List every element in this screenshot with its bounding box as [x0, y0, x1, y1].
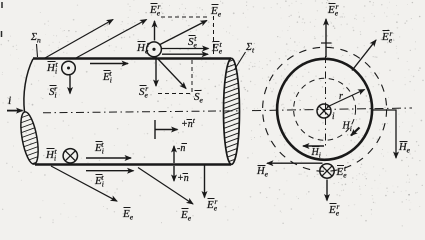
label +n^t	[181, 116, 196, 130]
label S_i^r	[49, 84, 57, 100]
label E_i^t top	[102, 69, 112, 85]
svg-text:Eer: Eer	[381, 29, 393, 45]
right end cross-section Sigma_t (hatched ellipse)	[214, 48, 252, 182]
axis of cylinder (dash-dot)	[43, 111, 239, 113]
H_e^t symbol: field out of page (circle-dot)	[147, 42, 162, 57]
H_i direction arrow (inner circle)	[351, 128, 360, 136]
sigma_n pointer	[37, 44, 38, 57]
label E_e resultant	[210, 5, 222, 19]
H_i^t symbol: field into page (circle-X)	[63, 149, 77, 163]
label S_e^r	[139, 84, 149, 100]
incident ray arrow 1	[45, 20, 113, 59]
svg-text:+n: +n	[177, 173, 189, 184]
left end cross-section (hatched ellipse)	[12, 103, 48, 191]
svg-text:Sir: Sir	[49, 84, 57, 100]
label H_e right side	[398, 142, 411, 155]
label E_e bottom left	[122, 208, 134, 222]
E_i^t arrow (above bottom surface)	[86, 157, 131, 159]
conductor cross-section circle	[277, 59, 372, 160]
E_e^t symbol: field into page at bottom (circle-X)	[320, 164, 334, 178]
E_e^r down arrow (bottom)	[204, 165, 206, 198]
H_e right-hand lead (L-shape, arrow down)	[373, 110, 397, 158]
cylinder left break arc	[24, 59, 33, 112]
current arrow i	[7, 110, 23, 112]
radius arrow r	[327, 90, 365, 108]
H_i arrow near bottom inside	[303, 145, 324, 147]
scan edge artifacts	[1, 2, 4, 37]
label +n	[177, 173, 189, 184]
svg-text:Eit: Eit	[94, 140, 104, 156]
outer dashed circle: H_e path	[263, 47, 387, 171]
wire: cylinder bottom surface	[35, 163, 231, 166]
S_e^r down arrow	[155, 57, 157, 87]
svg-text:Eet: Eet	[211, 40, 223, 56]
normal direction marker +n^t	[155, 120, 178, 139]
E_e^r upper-right diagonal arrow	[352, 40, 376, 71]
label E_e^t	[211, 40, 223, 56]
svg-text:i: i	[8, 93, 11, 107]
+n normal arrow (down)	[173, 166, 175, 181]
tangent line with H_e arrow pointing left	[267, 162, 323, 164]
label S_e^t	[188, 34, 198, 50]
current into page symbol at centre (circle-X)	[317, 104, 331, 118]
E_e^r up arrow (top centre)	[154, 21, 156, 41]
construction dashes S rectangle bottom	[158, 93, 190, 95]
svg-text:Eer: Eer	[149, 2, 161, 18]
H_i^t symbol: field out of page (circle-dot)	[62, 61, 76, 75]
E_e refracted diagonal arrow left	[51, 166, 117, 201]
horizontal centre line	[252, 108, 412, 111]
svg-text:r: r	[339, 91, 343, 102]
svg-text:Eet: Eet	[336, 164, 348, 180]
svg-text:Eer: Eer	[327, 2, 339, 18]
label E_i^t below	[94, 173, 104, 189]
svg-text:Eit: Eit	[94, 173, 104, 189]
label S_e	[194, 91, 204, 105]
E_e^r bottom arrow	[326, 180, 328, 201]
svg-text:Eer: Eer	[206, 197, 218, 213]
label E_e^r bottom of left figure	[206, 197, 218, 213]
label E_e^r bottom of right figure	[328, 202, 340, 218]
inner dashed circle: H_i path	[294, 78, 356, 140]
svg-text:Hit: Hit	[45, 147, 57, 163]
E_e^t arrow	[162, 53, 208, 55]
wire: cylinder top surface	[33, 57, 231, 60]
sigma_t pointer	[235, 52, 246, 70]
construction dashes S rectangle right	[191, 60, 193, 92]
label H_i bottom inside	[311, 147, 321, 160]
svg-text:-n: -n	[177, 143, 185, 154]
S_e^t arrow	[162, 48, 209, 50]
S_i^r arrow	[69, 76, 71, 94]
construction dashes top	[161, 16, 209, 18]
svg-text:Set: Set	[188, 34, 198, 50]
label E_e^r top centre	[149, 2, 161, 18]
label -n	[177, 143, 187, 154]
vertical centre line	[325, 56, 327, 148]
S_e resultant diagonal	[158, 59, 186, 89]
svg-text:Eer: Eer	[328, 202, 340, 218]
E_i^t arrow (top, inside)	[90, 63, 128, 65]
label E_e^r diagonal right figure	[381, 29, 393, 45]
label E_i^t above	[94, 140, 104, 156]
svg-text:Ser: Ser	[139, 84, 149, 100]
construction dashes right	[213, 16, 215, 54]
label E_e^t right of circle-X	[336, 164, 348, 180]
E_e refracted diagonal arrow right	[138, 168, 193, 205]
label H_i^t top	[46, 60, 58, 76]
label H_i^t bottom	[45, 147, 57, 163]
label H_e left	[256, 166, 269, 179]
label E_e bottom middle	[180, 209, 192, 223]
E_e^r top arrow	[321, 19, 332, 57]
label H_e^t	[136, 40, 150, 56]
svg-text:Eit: Eit	[102, 69, 112, 85]
E_i^t arrow (below bottom surface)	[86, 170, 134, 172]
svg-text:Hit: Hit	[46, 60, 58, 76]
svg-text:Het: Het	[136, 40, 150, 56]
incident ray arrow 2	[76, 20, 147, 59]
E_e resultant diagonal arrow	[160, 21, 207, 45]
label E_e^r top of right figure	[327, 2, 339, 18]
-n normal arrow (up)	[173, 146, 175, 163]
